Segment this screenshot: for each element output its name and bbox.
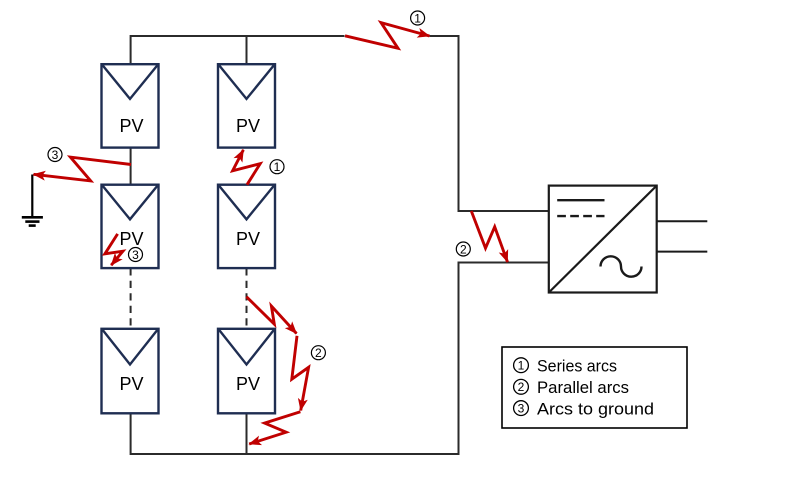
svg-text:PV: PV [119, 374, 143, 394]
label 3 (arc to ground) [48, 148, 62, 162]
label 1 (series arc, string) [270, 160, 284, 174]
wire: right string top drop [246, 36, 248, 64]
svg-text:1: 1 [414, 11, 421, 25]
label 2 (parallel arc, string) [311, 346, 325, 360]
svg-text:Series arcs: Series arcs [537, 356, 617, 375]
svg-text:1: 1 [274, 160, 281, 174]
svg-text:1: 1 [518, 359, 525, 373]
PV module PV5 [218, 185, 275, 268]
svg-text:2: 2 [460, 242, 467, 256]
arc fault 3: arc inside PV2 [105, 234, 123, 265]
wire: left string top drop and top bus to break [131, 36, 345, 64]
wire: left string dashed continuation [130, 268, 132, 329]
svg-text:2: 2 [315, 346, 322, 360]
wire: AC output top [657, 220, 708, 222]
label 3 (inside PV2) [129, 248, 143, 262]
PV module PV1 [102, 64, 159, 147]
arc fault 3: arc to ground [34, 157, 132, 181]
svg-text:2: 2 [518, 380, 525, 394]
PV module PV3 [102, 329, 159, 414]
svg-text:PV: PV [236, 116, 260, 136]
label 2 (parallel arc, inverter) [456, 242, 470, 256]
PV module PV6 [218, 329, 275, 414]
svg-text:PV: PV [236, 374, 260, 394]
wire: bottom bus from left string up to inverter DC- input [131, 263, 549, 455]
ground [22, 175, 43, 226]
svg-text:Parallel arcs: Parallel arcs [537, 378, 629, 397]
svg-text:PV: PV [119, 116, 143, 136]
arc fault 2: parallel arc along right string, upper segment [246, 297, 296, 334]
arc fault 2: parallel arc at inverter input [471, 211, 507, 262]
arc fault 1: series arc on top bus [345, 23, 430, 49]
inverter U1 [549, 186, 657, 293]
svg-text:3: 3 [518, 401, 525, 415]
wire: left string between PV1 and PV2 [130, 148, 132, 185]
arc fault 2: parallel arc along right string, middle segment [292, 336, 309, 411]
wire: top bus right segment to inverter DC+ input [430, 36, 549, 211]
svg-text:3: 3 [52, 148, 59, 162]
label 1 (series arc, top bus) [411, 11, 425, 25]
svg-text:3: 3 [132, 248, 139, 262]
wire: AC output bottom [657, 251, 708, 253]
PV module PV4 [218, 64, 275, 147]
legend row 2: parallel arcs [514, 378, 629, 397]
svg-text:PV: PV [119, 229, 143, 249]
wire: right string bottom drop [246, 413, 248, 454]
svg-text:Arcs to ground: Arcs to ground [537, 399, 654, 418]
legend row 3: arcs to ground [514, 399, 654, 418]
PV module PV2 [102, 185, 159, 268]
svg-text:PV: PV [236, 229, 260, 249]
legend box [502, 347, 687, 428]
arc fault 2: parallel arc along right string, lower segment [249, 412, 300, 444]
legend row 1: series arcs [514, 356, 617, 375]
arc fault 1: series arc between PV4 and PV5 [233, 150, 261, 185]
wire: right string dashed continuation [246, 268, 248, 329]
